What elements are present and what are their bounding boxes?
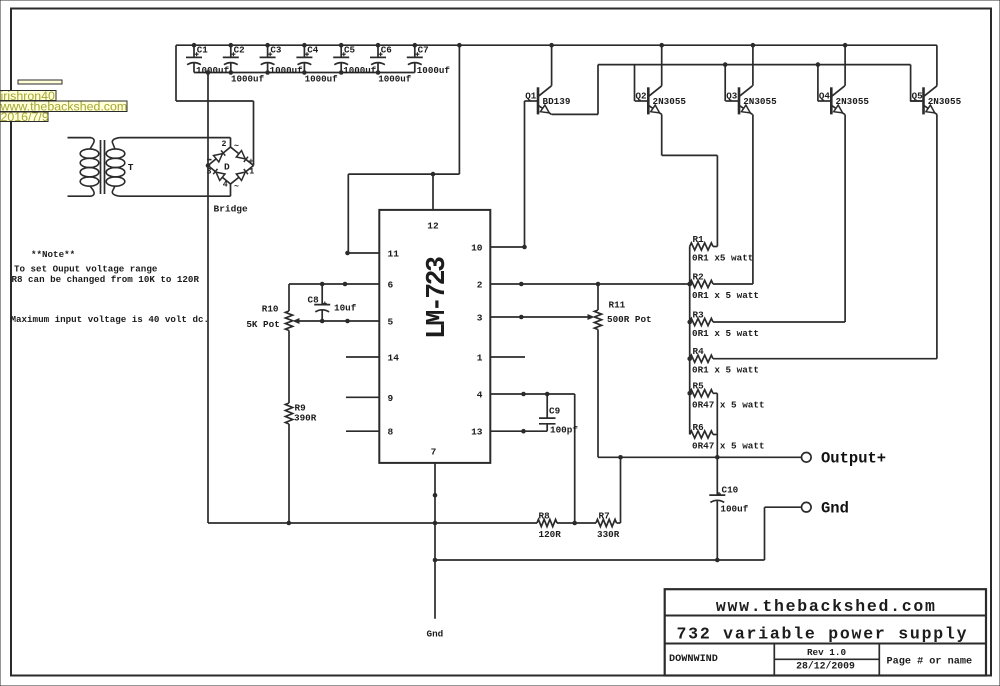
svg-text:Q2: Q2 (636, 91, 647, 102)
svg-text:2: 2 (222, 140, 227, 149)
svg-text:Bridge: Bridge (214, 204, 249, 215)
svg-text:11: 11 (388, 249, 400, 260)
svg-text:T: T (128, 162, 134, 173)
svg-text:To set Ouput voltage range: To set Ouput voltage range (14, 264, 158, 275)
svg-text:3: 3 (477, 313, 483, 324)
svg-text:0R1 x5 watt: 0R1 x5 watt (692, 253, 753, 264)
svg-text:10uf: 10uf (334, 303, 357, 314)
svg-text:R7: R7 (599, 510, 610, 521)
svg-text:2016/7/9: 2016/7/9 (1, 110, 49, 124)
svg-text:Rev 1.0: Rev 1.0 (807, 647, 846, 658)
svg-text:5: 5 (388, 317, 394, 328)
svg-text:1000uf: 1000uf (343, 65, 377, 76)
svg-text:Q4: Q4 (819, 91, 831, 102)
svg-text:14: 14 (388, 353, 400, 364)
svg-text:10: 10 (471, 243, 483, 254)
svg-text:+: + (249, 158, 254, 167)
svg-text:LM-723: LM-723 (422, 256, 452, 339)
svg-text:D: D (224, 162, 230, 173)
svg-text:R2: R2 (693, 271, 705, 282)
svg-text:www.thebackshed.com: www.thebackshed.com (716, 597, 935, 616)
svg-text:1000uf: 1000uf (196, 65, 230, 76)
svg-text:Q1: Q1 (525, 91, 537, 102)
svg-text:1000uf: 1000uf (417, 65, 451, 76)
svg-text:330R: 330R (597, 529, 620, 540)
svg-text:C9: C9 (549, 406, 561, 417)
svg-text:0R47 x 5 watt: 0R47 x 5 watt (692, 399, 765, 410)
svg-text:R8: R8 (539, 510, 551, 521)
svg-text:7: 7 (431, 446, 437, 457)
svg-text:DOWNWIND: DOWNWIND (669, 654, 718, 665)
svg-text:1000uf: 1000uf (231, 74, 265, 85)
svg-text:~: ~ (234, 183, 239, 192)
svg-text:0R1 x 5 watt: 0R1 x 5 watt (692, 365, 759, 376)
svg-text:100uf: 100uf (720, 504, 748, 515)
svg-text:28/12/2009: 28/12/2009 (796, 660, 855, 671)
svg-text:4: 4 (223, 181, 228, 190)
svg-text:R3: R3 (693, 309, 705, 320)
svg-text:R8 can be changed from 10K to: R8 can be changed from 10K to 120R (12, 274, 200, 285)
svg-text:4: 4 (477, 390, 483, 401)
svg-text:2N3055: 2N3055 (928, 96, 962, 107)
svg-text:R1: R1 (693, 234, 705, 245)
svg-text:R6: R6 (693, 422, 705, 433)
svg-text:2N3055: 2N3055 (743, 96, 777, 107)
svg-text:6: 6 (388, 280, 394, 291)
svg-text:Gnd: Gnd (821, 500, 849, 518)
svg-text:2N3055: 2N3055 (653, 96, 687, 107)
svg-text:13: 13 (471, 427, 483, 438)
svg-text:732 variable power supply: 732 variable power supply (677, 625, 967, 644)
svg-text:2: 2 (477, 280, 483, 291)
svg-text:500R Pot: 500R Pot (607, 314, 652, 325)
svg-text:R11: R11 (609, 300, 626, 311)
svg-text:0R47 x 5 watt: 0R47 x 5 watt (692, 441, 765, 452)
svg-text:R5: R5 (693, 381, 705, 392)
svg-text:Maximum input voltage is 40 vo: Maximum input voltage is 40 volt dc. (11, 314, 209, 325)
svg-text:BD139: BD139 (543, 96, 571, 107)
svg-text:Page # or name: Page # or name (887, 656, 973, 667)
svg-text:Output+: Output+ (821, 450, 886, 468)
svg-text:1: 1 (477, 353, 483, 364)
svg-text:0R1 x 5 watt: 0R1 x 5 watt (692, 290, 759, 301)
svg-text:~: ~ (234, 142, 239, 151)
svg-text:5K Pot: 5K Pot (246, 319, 279, 330)
svg-text:1: 1 (249, 168, 254, 177)
svg-text:R4: R4 (693, 346, 705, 357)
svg-text:Q3: Q3 (726, 91, 738, 102)
svg-text:120R: 120R (539, 529, 562, 540)
svg-text:9: 9 (388, 393, 394, 404)
svg-text:8: 8 (388, 427, 394, 438)
svg-text:C8: C8 (308, 295, 320, 306)
svg-text:**Note**: **Note** (31, 249, 75, 260)
svg-text:2N3055: 2N3055 (836, 96, 870, 107)
svg-text:Gnd: Gnd (427, 629, 444, 640)
svg-text:1000uf: 1000uf (305, 74, 339, 85)
svg-text:12: 12 (427, 221, 439, 232)
svg-text:C10: C10 (722, 484, 739, 495)
svg-text:Q5: Q5 (912, 91, 924, 102)
svg-text:0R1 x 5 watt: 0R1 x 5 watt (692, 328, 759, 339)
svg-text:1000uf: 1000uf (270, 65, 304, 76)
svg-text:1000uf: 1000uf (378, 74, 412, 85)
svg-text:R10: R10 (262, 303, 279, 314)
svg-text:390R: 390R (294, 413, 317, 424)
svg-text:100pf: 100pf (550, 424, 578, 435)
